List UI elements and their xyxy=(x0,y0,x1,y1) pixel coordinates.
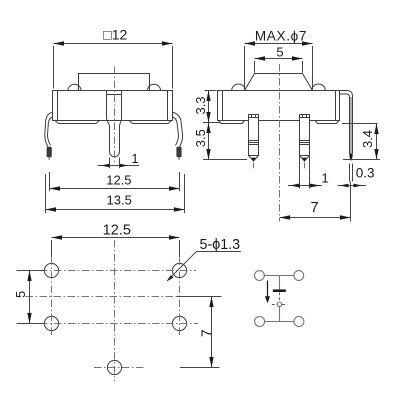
dashed horizontal through contact circle xyxy=(272,304,277,306)
center post wide section xyxy=(106,91,108,120)
dimension 7 (side) line xyxy=(280,217,351,219)
svg-text:0.3: 0.3 xyxy=(356,165,375,180)
switch button (front) xyxy=(79,74,150,91)
dimension 1 (side) line with outward arrows xyxy=(288,185,322,187)
hole bottom-right xyxy=(172,316,186,330)
top row center line xyxy=(40,270,196,272)
dimension square-12 line xyxy=(54,43,173,45)
right locating bump (front) xyxy=(148,84,161,90)
svg-text:7: 7 xyxy=(198,329,214,337)
wire from top to contact xyxy=(279,276,281,290)
dimension 7 (side) right extension xyxy=(350,182,352,222)
left leg solder tip xyxy=(47,147,52,158)
side view center line xyxy=(279,64,281,222)
left locating bump (front) xyxy=(68,84,81,90)
left column center line xyxy=(51,258,53,338)
svg-text:3.5: 3.5 xyxy=(193,129,208,147)
hole top-right xyxy=(172,263,186,277)
svg-text:5-ϕ1.3: 5-ϕ1.3 xyxy=(200,237,241,253)
dimension 13.5 line xyxy=(46,209,185,211)
fixed contact bar xyxy=(273,289,286,292)
middle center line xyxy=(26,296,209,298)
dimension 3.3 extension lines xyxy=(205,90,217,92)
dimension 1 (front) extension lines xyxy=(109,158,111,169)
svg-text:12.5: 12.5 xyxy=(103,222,131,238)
switch body (front) xyxy=(53,91,173,121)
bottom hole horizontal crosshair xyxy=(94,367,145,369)
dimension 12.5 (pcb) extension lines xyxy=(51,240,53,257)
svg-text:5: 5 xyxy=(276,45,283,60)
svg-text:13.5: 13.5 xyxy=(107,193,132,208)
svg-text:1: 1 xyxy=(321,170,328,185)
right pin point xyxy=(302,158,307,162)
front view center line xyxy=(114,67,116,165)
dimension 3.5 bottom extension xyxy=(203,159,247,161)
right locating bump (side) xyxy=(312,84,326,90)
svg-text:7: 7 xyxy=(310,200,318,216)
terminal 3 (bottom-left) xyxy=(255,317,265,327)
right pin (side) xyxy=(300,115,310,162)
svg-text:□12: □12 xyxy=(103,27,127,43)
center post narrow tip xyxy=(110,126,120,157)
svg-text:5: 5 xyxy=(13,291,28,298)
dimension 13.5 extension lines xyxy=(45,174,47,213)
dimension 12.5 (front) extension lines xyxy=(49,172,51,191)
bottom row center line xyxy=(40,323,198,325)
actuation arrow xyxy=(267,281,269,298)
dimension 1 (side) extension lines xyxy=(299,156,301,189)
dimension MAX phi7 extension lines xyxy=(244,46,246,90)
body inner right wall xyxy=(167,91,169,121)
wire bottom xyxy=(265,321,294,323)
left leg (front) xyxy=(45,112,53,147)
center post taper xyxy=(107,119,110,126)
side bracket (5th terminal) xyxy=(350,97,353,154)
dimension 12.5 (pcb) line xyxy=(52,237,180,239)
left locating bump (side) xyxy=(232,84,246,91)
dimension 3.3 line xyxy=(208,91,210,123)
right column center line xyxy=(179,258,181,338)
bracket point xyxy=(349,154,352,162)
right mounting boss (side) xyxy=(315,121,339,124)
dimension 5 line xyxy=(255,58,303,60)
dimension 7 (pcb) bottom extension xyxy=(180,367,220,369)
movable contact circle xyxy=(277,302,282,307)
right mounting boss (front) xyxy=(129,121,172,124)
left mounting boss (front) xyxy=(55,121,100,124)
wire top xyxy=(264,275,294,277)
dimension 3.4 line xyxy=(376,124,378,160)
dimension 5 extension lines xyxy=(254,61,256,73)
wire from contact to bottom xyxy=(279,307,281,322)
dimension 7 (pcb) top extension xyxy=(177,296,222,298)
dimension 1 (front) line with outward arrows xyxy=(98,165,140,167)
vertical center line xyxy=(114,240,116,381)
dimension square-12 extension lines xyxy=(53,46,55,89)
switch body (side) xyxy=(218,91,340,121)
dimension 0.3 extension lines xyxy=(349,164,351,182)
dimension 5 (pcb) extension lines xyxy=(17,270,45,272)
leader arrowhead xyxy=(166,275,173,282)
body inner right wall (side) xyxy=(335,91,337,121)
left mounting boss (side) xyxy=(219,121,245,124)
leader line for 5-phi1.3 xyxy=(168,252,241,281)
terminal 4 (bottom-right) xyxy=(294,317,304,327)
terminal 2 (top-right) xyxy=(294,271,304,281)
dimension 0.3 line with outward arrows xyxy=(338,185,367,187)
dimension 3.5 line xyxy=(208,123,210,160)
svg-text:MAX.ϕ7: MAX.ϕ7 xyxy=(255,28,307,43)
switch button (side, trapezoid) xyxy=(245,74,313,91)
svg-text:3.4: 3.4 xyxy=(360,130,375,148)
body inner left wall xyxy=(57,91,59,121)
left pin (side) xyxy=(249,115,259,162)
hole bottom-center xyxy=(107,360,121,374)
hole bottom-left xyxy=(44,316,58,330)
right leg (front) xyxy=(173,112,183,147)
right leg solder tip xyxy=(176,147,181,158)
dimension 3.4 extension lines xyxy=(342,123,378,125)
dimension MAX phi7 line xyxy=(245,43,313,45)
dimension 5 (pcb) line xyxy=(29,271,31,324)
svg-text:3.3: 3.3 xyxy=(193,96,208,114)
svg-text:12.5: 12.5 xyxy=(106,172,131,187)
left pin point xyxy=(251,158,256,162)
hole top-left xyxy=(44,263,58,277)
svg-text:1: 1 xyxy=(131,151,138,166)
dimension 12.5 (front) line xyxy=(50,188,180,190)
movable contact dashed link xyxy=(279,293,281,303)
terminal 1 (top-left) xyxy=(255,271,265,281)
body inner left wall (side) xyxy=(222,91,224,121)
dimension 7 (pcb) line xyxy=(211,297,213,368)
